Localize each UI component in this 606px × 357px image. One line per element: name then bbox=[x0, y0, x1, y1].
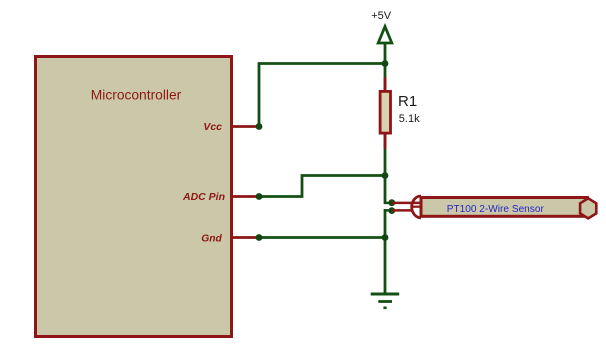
junction dot sensor lower bbox=[388, 207, 395, 214]
junction dot sensor upper bbox=[388, 199, 395, 206]
svg-text:PT100 2-Wire Sensor: PT100 2-Wire Sensor bbox=[447, 204, 545, 215]
wire main vertical upper (+5V to sensor tap) bbox=[384, 43, 387, 204]
svg-text:+5V: +5V bbox=[371, 10, 392, 22]
wire ADC pin stub (red) bbox=[231, 195, 259, 198]
sensor cap midline (red) bbox=[411, 206, 420, 208]
junction dot top rail bbox=[382, 60, 389, 67]
sensor lead lower (red) bbox=[392, 209, 413, 212]
sensor lead upper (red) bbox=[392, 202, 420, 205]
svg-text:Microcontroller: Microcontroller bbox=[91, 88, 182, 103]
svg-text:ADC Pin: ADC Pin bbox=[182, 191, 225, 203]
svg-text:Gnd: Gnd bbox=[201, 233, 222, 244]
resistor R1 body bbox=[380, 91, 390, 133]
wire ADC route bbox=[259, 176, 385, 197]
sensor tip hexagon bbox=[580, 198, 596, 218]
wire Gnd pin stub (red) bbox=[231, 236, 259, 239]
wire Vcc pin stub (red) bbox=[231, 125, 259, 128]
wire sensor stub lower bbox=[384, 209, 391, 212]
sensor cap arc bbox=[412, 196, 421, 218]
microcontroller U1 body bbox=[36, 57, 232, 337]
svg-text:Vcc: Vcc bbox=[203, 121, 222, 133]
sensor PT100 body bbox=[421, 198, 587, 217]
wire Vcc riser to top rail bbox=[259, 64, 385, 127]
junction dot Gnd rail bbox=[382, 234, 389, 241]
wire sensor stub upper bbox=[384, 202, 391, 205]
resistor R1 leads (red) bbox=[384, 77, 387, 91]
ground symbol bbox=[371, 293, 400, 296]
wire Gnd route bbox=[259, 236, 385, 239]
svg-text:R1: R1 bbox=[398, 93, 417, 110]
junction dot Vcc pin bbox=[256, 123, 263, 130]
svg-text:5.1k: 5.1k bbox=[399, 113, 420, 125]
wire main vertical lower (sensor tap to ground) bbox=[384, 209, 387, 294]
junction dot ADC tap bbox=[382, 172, 389, 179]
junction dot ADC pin bbox=[256, 193, 263, 200]
junction dot Gnd pin bbox=[256, 234, 263, 241]
